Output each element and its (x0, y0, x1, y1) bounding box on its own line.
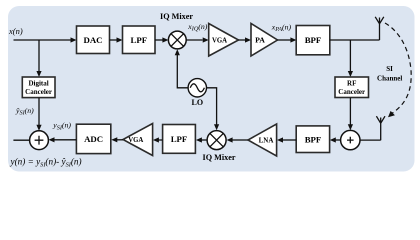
svg-text:ADC: ADC (84, 134, 103, 144)
svg-text:IQ Mixer: IQ Mixer (203, 153, 236, 162)
svg-text:LNA: LNA (259, 136, 274, 144)
svg-text:IQ Mixer: IQ Mixer (160, 12, 193, 21)
svg-text:LPF: LPF (130, 35, 147, 45)
svg-text:BPF: BPF (305, 134, 322, 144)
svg-text:Canceler: Canceler (25, 88, 52, 96)
svg-text:LO: LO (192, 98, 204, 107)
svg-text:RF: RF (347, 80, 356, 88)
svg-text:Channel: Channel (377, 75, 402, 83)
svg-text:SI: SI (386, 65, 393, 73)
svg-text:x(n): x(n) (8, 26, 23, 36)
svg-text:Digital: Digital (28, 80, 48, 88)
svg-text:BPF: BPF (305, 35, 322, 45)
svg-text:VGA: VGA (212, 37, 227, 44)
svg-text:Canceler: Canceler (338, 88, 365, 96)
svg-text:DAC: DAC (83, 35, 102, 45)
svg-text:PA: PA (255, 35, 265, 44)
svg-text:VGA: VGA (128, 137, 143, 144)
svg-text:LPF: LPF (171, 134, 188, 144)
